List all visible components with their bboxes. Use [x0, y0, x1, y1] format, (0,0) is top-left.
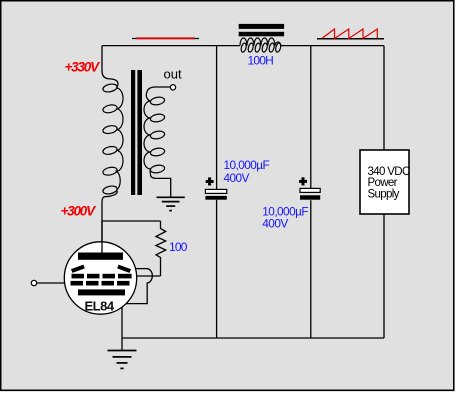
svg-text:EL84: EL84	[85, 299, 115, 314]
svg-text:Power: Power	[368, 177, 398, 189]
svg-text:+330V: +330V	[65, 60, 101, 75]
svg-text:400V: 400V	[224, 171, 250, 185]
svg-text:Supply: Supply	[368, 189, 400, 201]
svg-text:10,000µF: 10,000µF	[224, 158, 270, 172]
svg-text:100: 100	[169, 240, 188, 254]
svg-text:400V: 400V	[262, 216, 288, 230]
svg-text:100H: 100H	[248, 53, 274, 67]
svg-text:340 VDC: 340 VDC	[368, 166, 410, 178]
svg-text:out: out	[164, 67, 182, 82]
svg-text:+300V: +300V	[61, 204, 97, 219]
